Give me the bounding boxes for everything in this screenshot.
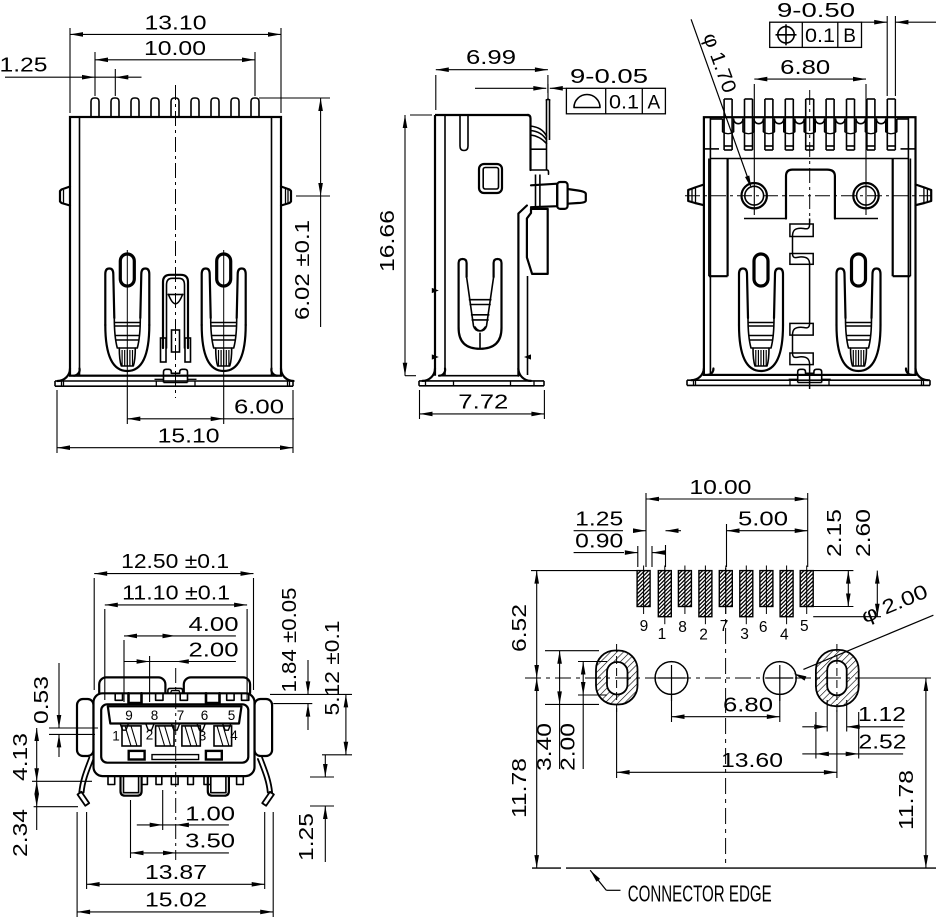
front view spring centre lines xyxy=(126,250,128,385)
flange weld ticks xyxy=(693,380,695,385)
svg-text:11.10 ±0.1: 11.10 ±0.1 xyxy=(122,583,230,605)
spring contact bottom loop xyxy=(739,325,783,371)
footprint vertical centre line xyxy=(725,568,727,866)
rear view rivet holes xyxy=(742,183,767,208)
svg-text:B: B xyxy=(843,26,856,47)
svg-text:6.00: 6.00 xyxy=(234,397,284,419)
dim 7.72 xyxy=(419,390,421,419)
mating view shell body xyxy=(94,693,255,776)
svg-text:2.00: 2.00 xyxy=(189,639,239,661)
mating view bottom stubs xyxy=(108,776,115,784)
mating view shell opening xyxy=(101,704,248,762)
body bottom edge xyxy=(708,374,912,376)
svg-text:5: 5 xyxy=(228,708,236,723)
position tolerance frame 0.1 B xyxy=(770,22,862,47)
rear view horizontal centre line xyxy=(685,195,932,197)
svg-text:2: 2 xyxy=(146,728,154,743)
dim 15.10 xyxy=(56,390,58,453)
rear view right side tab xyxy=(916,185,932,206)
dim 2.00 footprint xyxy=(578,661,607,663)
side view side tab xyxy=(531,184,557,208)
dim 13.87 xyxy=(86,812,88,889)
side view pin bend curves xyxy=(531,126,547,136)
side view board-lock plate xyxy=(527,209,548,274)
pin thickness arrows 9-0.05 xyxy=(547,84,549,99)
footprint horizontal centre line xyxy=(525,677,936,679)
centre solder tab xyxy=(798,369,822,375)
svg-text:6.99: 6.99 xyxy=(466,47,516,69)
svg-text:A: A xyxy=(647,93,660,114)
bottom flange plate xyxy=(687,379,930,381)
dim 1.12 xyxy=(826,700,828,732)
svg-text:7: 7 xyxy=(177,708,185,723)
side view tab ledge xyxy=(531,170,549,174)
dim 12.50 +-0.1 xyxy=(93,578,95,690)
spring contact oval slot xyxy=(852,254,866,286)
front view right board-lock tab xyxy=(281,187,291,206)
front view centre contact feet xyxy=(161,338,167,362)
hole diameter leader 1.70 xyxy=(691,19,749,180)
mating view tongue xyxy=(108,706,242,723)
mating view side ears xyxy=(77,699,94,756)
spring contact bottom loop xyxy=(837,325,881,371)
svg-text:7: 7 xyxy=(720,618,729,635)
svg-text:2.15: 2.15 xyxy=(824,509,846,557)
rear view centre channel xyxy=(786,170,835,219)
dim 1.25 footprint xyxy=(665,545,667,567)
flange bend arcs xyxy=(58,369,71,382)
side view lower right edge xyxy=(518,206,527,376)
front view top pins xyxy=(91,98,99,117)
mating view centre line xyxy=(175,668,177,860)
dim 10.00 xyxy=(94,52,96,96)
side view top notch slot xyxy=(460,115,468,151)
rear view vertical centre line xyxy=(809,90,811,222)
dim 3.40 xyxy=(545,650,599,652)
side view bottom flange xyxy=(419,380,544,382)
lower contacts 1-4 hatched xyxy=(122,726,141,746)
svg-text:11.78: 11.78 xyxy=(509,758,531,818)
flange weld ticks xyxy=(61,381,63,386)
connector edge line xyxy=(532,867,561,869)
svg-text:0.1: 0.1 xyxy=(609,93,639,114)
svg-text:2: 2 xyxy=(699,627,708,644)
rear view band lower edges xyxy=(704,148,719,150)
svg-text:5.12 ±0.1: 5.12 ±0.1 xyxy=(322,621,344,716)
mating view rear hood bumps xyxy=(99,677,165,699)
svg-text:4: 4 xyxy=(230,728,238,743)
svg-text:3: 3 xyxy=(199,729,207,744)
side view inner fold line right xyxy=(527,276,529,375)
spring contact band lines xyxy=(748,322,774,324)
spring contact oval slot xyxy=(754,254,768,286)
svg-text:0.90: 0.90 xyxy=(575,530,623,552)
spring contact oval slot xyxy=(120,254,134,286)
dim 2.52 xyxy=(815,712,817,759)
dim 1.84 +-0.05 xyxy=(270,693,352,695)
svg-text:1.84 ±0.05: 1.84 ±0.05 xyxy=(279,588,301,693)
dim 15.02 xyxy=(76,812,78,917)
svg-text:1.25: 1.25 xyxy=(0,55,48,77)
hole diameter leader 2.00 xyxy=(803,615,933,669)
dim 5.12 +-0.1 xyxy=(322,754,352,756)
spring contact band lines xyxy=(846,322,872,324)
svg-text:15.02: 15.02 xyxy=(145,890,207,912)
svg-text:4.13: 4.13 xyxy=(10,733,32,781)
svg-text:6: 6 xyxy=(759,619,768,636)
svg-text:16.66: 16.66 xyxy=(377,210,399,272)
dim 6.02 +-0.1 xyxy=(259,97,330,99)
svg-text:10.00: 10.00 xyxy=(144,38,206,60)
dim 2.34 xyxy=(34,806,78,808)
svg-text:6.80: 6.80 xyxy=(723,695,773,717)
svg-text:13.60: 13.60 xyxy=(721,750,783,772)
side view weld marks xyxy=(432,288,439,293)
bottom flange plate xyxy=(55,380,293,382)
dim 2.15 xyxy=(813,570,853,572)
svg-text:9: 9 xyxy=(125,708,133,723)
spring contact band lines xyxy=(114,322,140,324)
svg-text:5.00: 5.00 xyxy=(738,509,788,531)
dim 13.60 xyxy=(616,708,618,778)
footprint oval hole right xyxy=(816,650,859,706)
svg-text:4: 4 xyxy=(780,627,789,644)
connector edge leader xyxy=(590,870,606,890)
spring contact bottom loop xyxy=(105,325,149,371)
footprint SMT pads xyxy=(637,571,650,607)
svg-text:8: 8 xyxy=(678,619,687,636)
svg-text:1.25: 1.25 xyxy=(575,508,623,530)
svg-text:13.87: 13.87 xyxy=(145,862,207,884)
svg-text:1.25: 1.25 xyxy=(296,813,318,861)
svg-text:1: 1 xyxy=(658,626,667,643)
rear view side plates xyxy=(726,159,728,277)
dim 10.00 footprint xyxy=(645,493,647,567)
spring contact band lines xyxy=(211,322,237,324)
svg-text:2.00: 2.00 xyxy=(558,723,580,771)
dim 6.00 xyxy=(126,385,128,424)
svg-text:11.78: 11.78 xyxy=(896,770,918,830)
body bottom edge xyxy=(74,375,277,377)
dim 2.60 xyxy=(813,616,881,618)
svg-text:CONNECTOR EDGE: CONNECTOR EDGE xyxy=(628,881,772,907)
svg-text:0.1: 0.1 xyxy=(805,26,835,47)
svg-text:5: 5 xyxy=(800,618,809,635)
flange bend arcs xyxy=(691,369,704,381)
svg-text:15.10: 15.10 xyxy=(158,426,220,448)
mating view left leg xyxy=(79,758,93,793)
svg-text:1.00: 1.00 xyxy=(185,803,235,825)
dim 13.10 xyxy=(69,28,71,113)
svg-text:2.52: 2.52 xyxy=(859,731,907,753)
svg-text:2.60: 2.60 xyxy=(853,509,875,557)
dim 11.78 right xyxy=(925,678,927,868)
front view shell inner fold lines xyxy=(79,117,81,376)
profile tolerance frame 0.1 A xyxy=(566,88,665,114)
dim 3.50 xyxy=(130,800,132,858)
svg-text:9: 9 xyxy=(640,618,649,635)
front view centre line xyxy=(175,85,177,398)
front view centre contact xyxy=(163,275,188,348)
svg-text:3.40: 3.40 xyxy=(534,723,556,771)
svg-text:1.12: 1.12 xyxy=(858,704,906,726)
spring contact tip serrations xyxy=(851,348,867,366)
svg-text:2.34: 2.34 xyxy=(10,809,32,857)
svg-text:9-0.05: 9-0.05 xyxy=(570,66,648,88)
spring contact outer prongs xyxy=(837,269,846,326)
spring contact tip serrations xyxy=(753,348,769,366)
dim 4.13 xyxy=(32,780,92,782)
rear view shell outline xyxy=(704,117,916,375)
svg-text:13.10: 13.10 xyxy=(145,12,207,34)
spring contact oval slot xyxy=(217,254,231,286)
dim 0.90 footprint xyxy=(637,546,639,567)
mating view mounting posts xyxy=(121,776,142,796)
front view left board-lock tab xyxy=(60,187,70,206)
mating view top edge tabs xyxy=(115,693,122,700)
footprint through holes xyxy=(655,662,688,695)
side view right edge upper xyxy=(528,115,531,170)
svg-text:6.02 ±0.1: 6.02 ±0.1 xyxy=(292,220,314,320)
svg-text:3: 3 xyxy=(740,626,749,643)
svg-text:7.72: 7.72 xyxy=(458,392,508,414)
svg-text:4.00: 4.00 xyxy=(189,614,239,636)
spring contact outer prongs xyxy=(105,269,114,326)
svg-text:12.50 ±0.1: 12.50 ±0.1 xyxy=(121,551,229,573)
front view shell outline xyxy=(70,117,281,376)
dim 1.25 xyxy=(114,69,116,96)
svg-text:9-0.50: 9-0.50 xyxy=(777,0,855,22)
dim 1.25 right xyxy=(310,776,334,778)
svg-text:0.53: 0.53 xyxy=(31,676,53,724)
svg-text:1: 1 xyxy=(112,729,120,744)
svg-text:10.00: 10.00 xyxy=(689,477,751,499)
dim 6.99 xyxy=(435,75,437,110)
rear view S-hook crimp chain xyxy=(790,224,813,237)
spring contact tip serrations xyxy=(216,348,232,366)
dim 5.00 footprint xyxy=(726,524,728,567)
spring contact outer prongs xyxy=(202,269,211,326)
mating view right leg xyxy=(258,758,272,793)
side view U-spring xyxy=(459,259,467,328)
rear view scalloped crimp band xyxy=(734,119,743,124)
dim 11.10 +-0.1 xyxy=(104,609,106,700)
dim 1.00 xyxy=(162,790,164,830)
side view rear pin xyxy=(546,99,548,143)
svg-text:6: 6 xyxy=(201,708,209,723)
dim 2.00 xyxy=(149,656,151,702)
svg-text:6.80: 6.80 xyxy=(780,57,830,79)
centre solder tab xyxy=(164,369,188,375)
dim 6.52 xyxy=(531,570,637,572)
svg-text:3.50: 3.50 xyxy=(185,831,235,853)
pin width extension lines xyxy=(886,16,888,96)
rear view left side tab xyxy=(688,185,704,206)
spring contact outer prongs xyxy=(739,269,748,326)
dim 11.78 left xyxy=(536,678,538,868)
rear view top pins xyxy=(723,99,725,150)
dim 6.80 rear xyxy=(753,84,755,215)
dim 4.00 xyxy=(123,640,125,702)
side view body outline xyxy=(434,115,436,376)
svg-text:6.52: 6.52 xyxy=(509,604,531,652)
svg-text:8: 8 xyxy=(151,708,159,723)
spring contact tip serrations xyxy=(119,348,135,366)
dim 0.53 xyxy=(49,727,98,729)
tongue contact tips xyxy=(120,724,128,731)
dim 16.66 xyxy=(410,114,432,116)
mating view bottom inner details xyxy=(129,751,145,760)
dim 6.80 footprint xyxy=(671,695,673,722)
spring contact bottom loop xyxy=(202,325,246,371)
footprint oval hole left xyxy=(596,651,638,705)
side view latch hole xyxy=(479,164,502,193)
